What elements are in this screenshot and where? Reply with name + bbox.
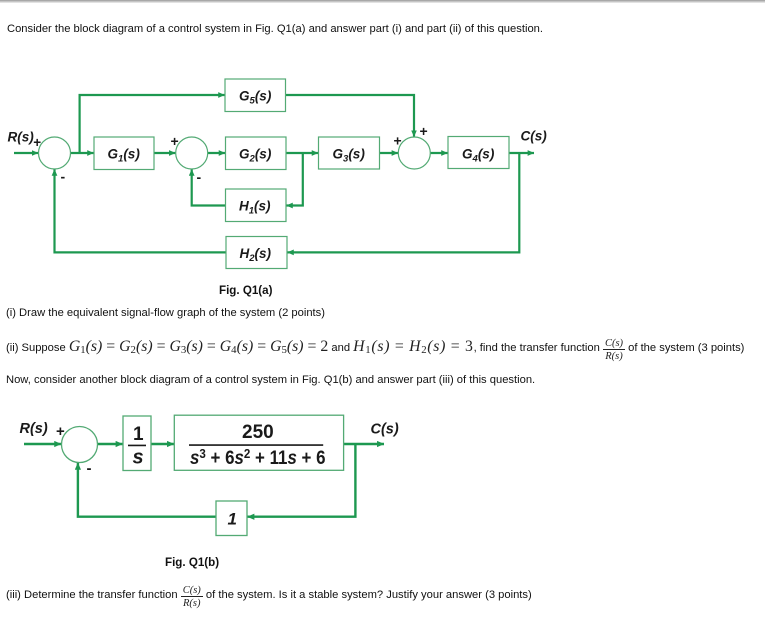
wire: G1 output to summing junction 2 <box>154 152 175 154</box>
wire: 1/s output to plant block <box>151 443 174 445</box>
summing junction 2 <box>176 137 208 169</box>
Fig Q1(b) block diagram <box>0 405 420 550</box>
wire: summing junction 3 output to G4 <box>430 152 447 154</box>
Fig Q1(a) block diagram <box>0 60 560 310</box>
block gain 1 <box>216 501 247 536</box>
paragraph (iii) <box>6 585 532 610</box>
svg-text:1: 1 <box>133 424 144 445</box>
svg-text:R(s): R(s) <box>20 421 48 437</box>
fraction bar of 1/s <box>128 444 146 446</box>
svg-text:+: + <box>420 123 428 139</box>
svg-text:+: + <box>56 423 65 440</box>
paragraph: now consider <box>6 374 535 386</box>
block 250/(s^3+6s^2+11s+6) <box>174 415 343 470</box>
summing junction 3 <box>398 137 430 169</box>
wire: plant output to C(s) <box>344 443 384 445</box>
caption Fig. Q1(b) <box>165 556 219 569</box>
summing junction 1 <box>39 137 71 169</box>
wire: summing junction output to 1/s <box>98 443 123 445</box>
wire: G4 output to C(s) <box>509 152 534 154</box>
wire: H1 branch from G2 output down and left into H1 <box>286 153 302 206</box>
top hairline <box>0 0 765 3</box>
wire: R(s) input into summing junction 1 <box>14 152 38 154</box>
wire: G5 output down into summing junction 3 top <box>286 95 415 137</box>
svg-text:s: s <box>133 447 144 469</box>
block G5 <box>225 79 286 112</box>
svg-text:+: + <box>394 133 402 149</box>
fraction bar of plant <box>189 444 323 446</box>
svg-text:+: + <box>171 133 179 149</box>
paragraph 1 <box>7 23 543 35</box>
svg-text:-: - <box>197 169 202 185</box>
wire: gain 1 output left and up into summing junction bottom <box>78 463 216 517</box>
svg-text:-: - <box>87 460 92 477</box>
block 1/s <box>123 416 151 471</box>
wire: G2 output to G3 <box>286 152 318 154</box>
wire: R(s) input into summing junction <box>24 443 61 445</box>
svg-text:R(s): R(s) <box>8 130 35 145</box>
wire: summing junction 1 output to G1 <box>71 152 94 154</box>
wire: branch up from node to G5 input <box>80 95 225 153</box>
svg-text:250: 250 <box>242 422 274 443</box>
summing junction <box>62 427 98 463</box>
block H1 <box>226 189 287 222</box>
svg-text:s3 + 6s2 + 11s + 6: s3 + 6s2 + 11s + 6 <box>190 446 326 468</box>
wire: H2 output left and up into summing junction 1 bottom <box>55 169 227 252</box>
block G1 <box>94 137 154 170</box>
svg-text:-: - <box>61 169 66 185</box>
paragraph (i) <box>6 307 325 319</box>
svg-text:C(s): C(s) <box>371 422 399 438</box>
paragraph (ii) <box>6 338 744 363</box>
wire: H2 branch from output node down and left into H2 <box>287 153 519 252</box>
wire: feedback branch down and left into gain 1 <box>247 444 355 517</box>
svg-text:C(s): C(s) <box>521 129 548 144</box>
block G3 <box>319 137 380 169</box>
block G4 <box>448 137 509 169</box>
svg-text:1: 1 <box>228 510 237 529</box>
wire: summing junction 2 output to G2 <box>208 152 225 154</box>
block G2 <box>226 137 287 170</box>
wire: G3 output to summing junction 3 <box>380 152 399 154</box>
caption Fig. Q1(a) <box>219 284 272 297</box>
svg-text:+: + <box>33 135 41 150</box>
block H2 <box>226 237 287 269</box>
wire: H1 output left and up into summing junction 2 bottom <box>192 169 226 205</box>
